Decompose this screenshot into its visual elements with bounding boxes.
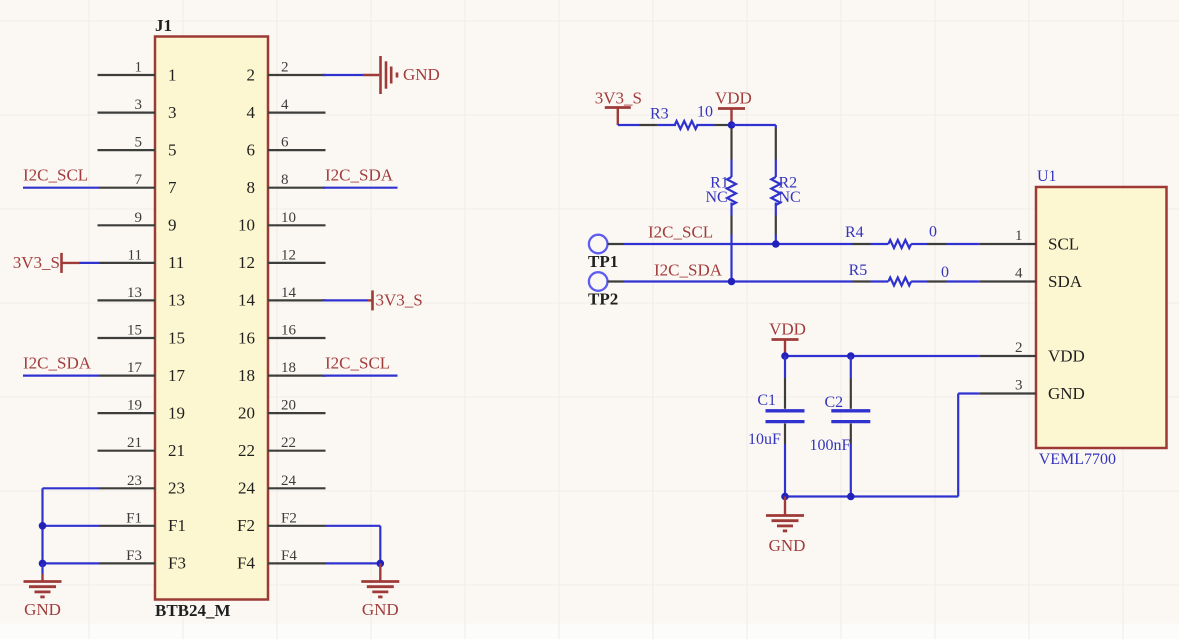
power 3V3_S (J1 pin 14) [368,290,423,310]
svg-text:19: 19 [127,398,142,414]
J1 pin F1 (left) [99,510,186,535]
svg-text:F2: F2 [237,516,255,535]
wire GND drop (left) [41,563,43,574]
svg-text:6: 6 [281,135,289,151]
svg-text:5: 5 [168,140,177,159]
wire I2C_SCL to J1 pin 7 [23,187,99,189]
svg-text:1: 1 [168,65,177,84]
net label I2C_SDA (J1 pin 17) [23,354,92,373]
net label I2C_SCL (J1 pin 18) [325,354,390,373]
svg-text:9: 9 [168,216,177,235]
svg-text:9: 9 [135,210,143,226]
svg-text:10uF: 10uF [748,431,781,448]
J1 pin 11 (left) [100,247,184,272]
junction VDD node [728,121,736,129]
resistor R1 NC [705,128,736,235]
svg-text:100nF: 100nF [810,437,851,454]
wire R4 to U1 SCL [947,243,980,245]
svg-text:SCL: SCL [1048,235,1079,254]
IC U1 VEML7700 [1036,168,1167,468]
wire VDD node to R2 [732,125,776,128]
svg-text:7: 7 [168,178,177,197]
J1 pin 7 (left) [99,172,177,197]
capacitor C1 10uF [748,356,805,497]
svg-text:21: 21 [127,435,142,451]
J1 pin 12 (right) [238,247,326,272]
svg-text:F2: F2 [281,510,297,526]
J1 pin 2 (right) [247,60,326,85]
ground GND (J1 pin 2) [363,56,440,94]
wire I2C_SCL from J1 pin 18 [323,375,398,377]
svg-text:C1: C1 [757,392,776,409]
wire R2 to SCL [775,235,777,245]
testpoint TP2 [588,272,618,308]
U1 pin 4 SDA [979,266,1082,292]
U1 pin 1 SCL [979,228,1079,254]
ground GND (right bottom) [361,563,399,619]
J1 pin 8 (right) [247,172,326,197]
wire J1 pin F4 to GND bus [326,562,381,564]
net label I2C_SCL (mid) [648,223,713,242]
svg-text:GND: GND [769,536,806,555]
U1 pin 2 VDD [979,340,1085,366]
svg-text:14: 14 [281,285,297,301]
svg-text:11: 11 [168,253,184,272]
svg-text:23: 23 [168,479,185,498]
J1 pin 3 (left) [98,97,177,122]
svg-text:24: 24 [238,479,256,498]
J1 pin 20 (right) [238,398,326,423]
svg-text:TP2: TP2 [588,290,618,309]
svg-text:J1: J1 [155,16,172,35]
svg-text:1: 1 [1015,228,1023,244]
svg-text:18: 18 [281,360,296,376]
wire TP1 to R4 [624,243,853,245]
svg-text:10: 10 [281,210,296,226]
svg-text:1: 1 [135,60,143,76]
svg-text:16: 16 [281,323,297,339]
J1 pin F4 (right) [237,548,325,573]
J1 pin 16 (right) [238,323,326,348]
J1 pin 4 (right) [247,97,326,122]
wire I2C_SDA from J1 pin 8 [323,187,398,189]
wire J1 pin 11 [80,262,101,264]
svg-text:4: 4 [1015,266,1023,282]
U1 pin 3 GND [979,378,1085,404]
svg-text:8: 8 [247,178,256,197]
junction (F4 bus) [377,560,385,568]
svg-text:6: 6 [247,140,256,159]
svg-text:18: 18 [238,366,255,385]
connector J1 [155,16,268,620]
J1 pin F2 (right) [237,510,325,535]
svg-text:I2C_SDA: I2C_SDA [23,354,92,373]
wire I2C_SDA to J1 pin 17 [23,375,99,377]
net label I2C_SDA (J1 pin 8) [325,166,394,185]
svg-text:14: 14 [238,291,256,310]
power 3V3_S (R3 input) [595,89,642,126]
J1 pin 17 (left) [99,360,186,385]
svg-text:15: 15 [168,328,185,347]
svg-text:5: 5 [135,135,143,151]
wire J1 pin F2 to GND bus [326,526,381,564]
wire R5 to U1 SDA [947,280,980,282]
ground GND (decoupling) [766,497,805,556]
svg-text:I2C_SCL: I2C_SCL [648,223,713,242]
resistor R3 10 [639,104,728,130]
J1 pin 13 (left) [98,285,186,310]
wire cap ground rail [785,394,979,497]
junction (C1 bottom) [781,493,789,501]
resistor R4 0 [845,224,947,249]
junction (R1/SDA) [728,278,736,286]
svg-text:I2C_SCL: I2C_SCL [325,354,390,373]
svg-text:VDD: VDD [769,320,806,339]
wire TP2 to R5 [624,280,853,282]
svg-text:2: 2 [1015,340,1023,356]
wire R3 to VDD node [728,124,732,126]
net label I2C_SDA (mid) [654,261,723,280]
junction (F1 bus) [39,522,47,530]
svg-text:22: 22 [238,441,255,460]
TP2 pin [608,280,625,282]
wire J1 pin F1 to GND bus [43,525,100,527]
svg-text:13: 13 [168,291,185,310]
J1 pin 14 (right) [238,285,326,310]
svg-text:13: 13 [127,285,142,301]
J1 pin 22 (right) [238,435,326,460]
svg-text:3V3_S: 3V3_S [595,89,642,108]
J1 pin 23 (left) [99,473,185,498]
svg-text:R4: R4 [845,224,864,241]
J1 pin 21 (left) [98,435,186,460]
svg-text:4: 4 [281,97,289,113]
svg-text:F1: F1 [126,510,142,526]
svg-text:R5: R5 [849,262,868,279]
J1 pin 5 (left) [98,135,177,160]
junction (R2/SCL) [772,240,780,248]
svg-text:21: 21 [168,441,185,460]
svg-text:F3: F3 [126,548,142,564]
svg-text:17: 17 [168,366,186,385]
TP1 pin [608,243,625,245]
svg-text:0: 0 [941,264,949,281]
power VDD (decoupling) [769,320,806,357]
svg-text:VDD: VDD [715,89,752,108]
wire J1 pin F3 to GND bus [43,562,100,564]
svg-text:24: 24 [281,473,297,489]
J1 pin 15 (left) [98,323,186,348]
ground GND (left bottom) [24,574,62,619]
svg-text:BTB24_M: BTB24_M [155,601,231,620]
svg-text:2: 2 [247,65,256,84]
wire J1 pin 23 to GND bus [43,488,100,563]
J1 pin 1 (left) [98,60,177,85]
J1 pin 9 (left) [98,210,177,235]
svg-text:C2: C2 [825,394,844,411]
J1 pin F3 (left) [99,548,186,573]
svg-text:3: 3 [135,97,143,113]
svg-text:VEML7700: VEML7700 [1039,451,1116,468]
svg-text:10: 10 [238,216,255,235]
svg-text:20: 20 [281,398,296,414]
svg-text:10: 10 [697,104,713,121]
testpoint TP1 [588,235,618,271]
power VDD (top node) [715,89,752,126]
resistor R2 NC [771,128,800,235]
power 3V3_S (J1 pin 11) [13,253,80,273]
svg-text:I2C_SDA: I2C_SDA [325,166,394,185]
svg-text:F4: F4 [237,554,255,573]
resistor R5 0 [849,262,949,286]
junction (C1 top) [781,352,789,360]
svg-text:8: 8 [281,172,289,188]
wire VDD rail [785,355,979,357]
J1 pin 19 (left) [98,398,186,423]
svg-text:R3: R3 [650,106,669,123]
svg-text:0: 0 [929,224,937,241]
net label I2C_SCL (J1 pin 7) [23,166,88,185]
svg-text:NC: NC [705,189,727,206]
wire J1 pin 14 [323,299,368,301]
junction (F3 bus) [39,560,47,568]
svg-text:2: 2 [281,60,289,76]
svg-text:12: 12 [238,253,255,272]
svg-text:U1: U1 [1037,168,1057,185]
wire R1 to SDA [730,235,732,282]
wire J1 pin 2 to GND [323,74,363,76]
svg-text:SDA: SDA [1048,272,1083,291]
svg-text:GND: GND [24,600,61,619]
svg-text:19: 19 [168,403,185,422]
svg-text:4: 4 [247,103,256,122]
svg-text:15: 15 [127,323,142,339]
capacitor C2 100nF [810,356,871,497]
svg-text:I2C_SDA: I2C_SDA [654,261,723,280]
svg-text:I2C_SCL: I2C_SCL [23,166,88,185]
svg-text:TP1: TP1 [588,252,618,271]
J1 pin 18 (right) [238,360,326,385]
svg-text:3V3_S: 3V3_S [13,253,60,272]
J1 pin 10 (right) [238,210,326,235]
svg-text:NC: NC [779,189,801,206]
svg-text:VDD: VDD [1048,347,1085,366]
J1 pin 6 (right) [247,135,326,160]
svg-text:F3: F3 [168,554,186,573]
junction (C2 bottom) [847,493,855,501]
svg-text:3: 3 [168,103,177,122]
wire 3V3_S to R3 [618,124,639,126]
junction (C2 top) [847,352,855,360]
svg-text:GND: GND [1048,384,1085,403]
svg-text:F1: F1 [168,516,186,535]
svg-text:20: 20 [238,403,255,422]
svg-text:3: 3 [1015,378,1023,394]
svg-text:12: 12 [281,247,296,263]
J1 pin 24 (right) [238,473,326,498]
svg-text:7: 7 [135,172,143,188]
svg-text:22: 22 [281,435,296,451]
svg-text:17: 17 [127,360,143,376]
svg-text:3V3_S: 3V3_S [376,291,423,310]
svg-text:F4: F4 [281,548,297,564]
svg-text:GND: GND [403,65,440,84]
svg-text:23: 23 [127,473,142,489]
svg-text:16: 16 [238,328,255,347]
svg-text:GND: GND [362,600,399,619]
svg-text:11: 11 [128,247,142,263]
